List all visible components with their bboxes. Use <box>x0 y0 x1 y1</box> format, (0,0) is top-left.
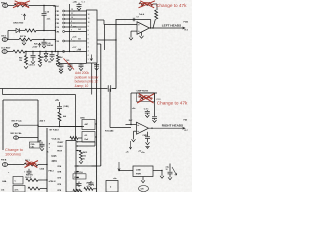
IC U1 body <box>87 10 98 63</box>
wire <box>95 123 97 125</box>
svg-text:C19: C19 <box>56 27 59 29</box>
wire bus <box>54 6 56 52</box>
svg-text:9: 9 <box>88 26 89 28</box>
wire <box>38 179 47 181</box>
red scribble over R26 <box>13 1 30 8</box>
capacitor C30 inline <box>107 85 109 92</box>
wire long vertical A <box>115 20 117 89</box>
svg-text:R40 470: R40 470 <box>26 173 33 176</box>
resistor R49 <box>70 137 78 140</box>
svg-text:10k: 10k <box>19 60 22 62</box>
box X3 <box>106 181 118 193</box>
svg-text:4: 4 <box>88 46 89 49</box>
wire <box>38 126 84 128</box>
svg-text:U4A: U4A <box>2 180 7 183</box>
capacitor C25b <box>94 63 99 65</box>
svg-text:C-9 1: C-9 1 <box>144 109 149 111</box>
wire <box>153 170 162 172</box>
svg-text:C4B: C4B <box>38 139 42 142</box>
svg-text:10: 10 <box>88 22 90 24</box>
svg-text:&amp; 10: &amp; 10 <box>75 84 89 88</box>
wire op-amp minus input <box>104 24 137 26</box>
svg-text:015: 015 <box>83 155 86 157</box>
wire <box>104 25 106 51</box>
svg-text:wfg: wfg <box>166 166 169 168</box>
wire <box>36 30 55 32</box>
wire vertical <box>130 93 132 125</box>
row 51 bubble <box>63 51 65 53</box>
resistor R48 <box>58 112 61 121</box>
svg-text:CR25 R30: CR25 R30 <box>13 23 24 25</box>
power arrow <box>39 43 41 47</box>
capacitor C7 on feedback <box>132 18 134 22</box>
wire bus <box>69 4 71 52</box>
svg-text:c: c <box>49 147 50 149</box>
wire <box>8 164 24 166</box>
diode CR26 <box>45 52 47 54</box>
svg-text:C43: C43 <box>48 60 51 63</box>
resistor R41 (crossed out) <box>24 163 38 166</box>
svg-text:7: 7 <box>71 29 72 31</box>
svg-text:C18: C18 <box>56 19 59 21</box>
wire top right stage <box>131 92 157 94</box>
box CHA CAL <box>30 142 41 148</box>
wire <box>103 20 105 25</box>
power arrow <box>24 14 26 20</box>
svg-text:CR3: CR3 <box>56 23 60 25</box>
resistor R437 <box>13 50 25 53</box>
left box <box>3 99 38 101</box>
wire <box>7 31 9 40</box>
svg-text:CRA: CRA <box>57 165 62 168</box>
resistor R43 <box>25 52 27 56</box>
svg-text:U4/5: U4/5 <box>52 155 58 158</box>
wire bus vertical <box>46 128 48 192</box>
capacitor C42 <box>32 52 34 55</box>
svg-text:+C26: +C26 <box>72 36 76 38</box>
svg-text:R47: R47 <box>129 119 132 122</box>
svg-text:MT P.ADJ: MT P.ADJ <box>50 129 59 132</box>
wire long vertical C <box>96 63 98 192</box>
svg-text:CRB: CRB <box>57 172 62 174</box>
resistor R26 (crossed out) <box>14 4 29 7</box>
svg-text:PB6 4: PB6 4 <box>1 1 7 4</box>
svg-text:R1C4A4: R1C4A4 <box>105 130 114 133</box>
svg-text:A47: A47 <box>85 123 88 126</box>
svg-text:5: 5 <box>88 43 89 45</box>
diode CR25 <box>16 28 19 32</box>
svg-text:+C25: +C25 <box>72 27 76 29</box>
capacitor C13 <box>152 116 157 118</box>
wire <box>153 3 157 5</box>
svg-text:C .1: C .1 <box>82 2 85 4</box>
ground <box>23 40 25 43</box>
circuit schematic scan, 192x192 <box>0 0 192 192</box>
wire <box>8 30 16 32</box>
resistor R415 <box>79 150 81 152</box>
svg-text:CR2: CR2 <box>56 15 60 17</box>
box CR22 <box>73 174 86 179</box>
wire <box>43 21 45 31</box>
svg-text:PB W: PB W <box>57 151 62 153</box>
svg-text:10: 10 <box>71 17 73 19</box>
IC U1 internal arrow <box>90 55 93 61</box>
svg-text:R27 2k: R27 2k <box>20 36 27 38</box>
wire pin12 vertical <box>91 63 93 95</box>
wire bus horizontal <box>0 88 108 90</box>
svg-text:2-6k: 2-6k <box>17 1 22 4</box>
trimmer box 2 <box>82 132 95 143</box>
capacitor C04 <box>43 6 45 13</box>
capacitor C4B <box>57 106 62 108</box>
wire <box>20 30 25 32</box>
svg-text:VCA adj: VCA adj <box>52 138 61 141</box>
wire minus input <box>126 124 137 126</box>
connector GND <box>139 186 149 192</box>
svg-text:PIN B: PIN B <box>1 160 7 162</box>
svg-text:CR41 C1A: CR41 C1A <box>74 171 83 174</box>
wire <box>153 19 155 28</box>
IC U4 body <box>66 141 76 193</box>
wire vertical <box>109 89 111 128</box>
svg-text:4.2: 4.2 <box>85 134 88 137</box>
svg-text:Change to 47k: Change to 47k <box>157 100 188 105</box>
output arrow <box>183 27 186 29</box>
svg-text:CPB: CPB <box>57 190 62 192</box>
wire <box>7 51 13 53</box>
capacitor C05 <box>43 40 45 42</box>
svg-text:J: J <box>93 185 94 187</box>
svg-text:B OH: B OH <box>54 6 60 8</box>
resistor R42 <box>28 187 40 190</box>
resistor R38 <box>84 187 93 190</box>
svg-text:12: 12 <box>71 9 73 11</box>
arrow <box>172 167 177 175</box>
red leader line <box>64 59 75 70</box>
svg-text:4.7k: 4.7k <box>87 185 91 188</box>
ground <box>146 142 150 144</box>
box X2 <box>13 186 25 193</box>
capacitor C22 <box>60 63 62 66</box>
svg-text:2k2: 2k2 <box>78 29 81 31</box>
svg-text:6: 6 <box>88 38 89 40</box>
svg-text:8: 8 <box>88 30 89 32</box>
wire <box>154 93 156 116</box>
connector CB4 <box>2 38 7 42</box>
svg-text:Ralf: Ralf <box>85 139 89 141</box>
svg-text:7: 7 <box>88 34 89 36</box>
capacitor C37 <box>90 181 92 182</box>
capacitor C23 <box>69 63 71 66</box>
red scribble over R60 <box>137 94 155 104</box>
svg-text:4k4: 4k4 <box>63 115 66 118</box>
wire <box>110 127 131 129</box>
supply arrow 2v <box>130 141 132 149</box>
wire <box>38 164 47 166</box>
resistor R46 <box>57 52 59 56</box>
svg-text:1N4148: 1N4148 <box>47 44 54 47</box>
wire <box>7 39 19 41</box>
output arrow right <box>183 127 186 129</box>
svg-text:C20: C20 <box>56 41 59 43</box>
wire <box>97 43 101 45</box>
svg-text:4k7: 4k7 <box>42 56 45 59</box>
wire bus horizontal 2 <box>3 94 76 96</box>
svg-text:(C4B): (C4B) <box>64 105 69 108</box>
box X1 <box>13 177 23 185</box>
ground <box>168 177 172 179</box>
svg-text:=PIN-3f: =PIN-3f <box>49 181 56 183</box>
svg-text:R415: R415 <box>83 151 87 154</box>
svg-text:CPB: CPB <box>57 184 62 186</box>
wire <box>97 39 116 41</box>
resistor R32 (crossed out) <box>139 3 153 6</box>
wire <box>56 63 87 65</box>
svg-text:MIC B CAL: MIC B CAL <box>11 132 23 135</box>
connector CC4 <box>2 50 7 54</box>
resistor R31 <box>155 10 158 19</box>
svg-text:+C447: +C447 <box>32 46 37 49</box>
wire <box>92 165 97 167</box>
svg-text:MIC P adj: MIC P adj <box>12 121 22 123</box>
svg-text:LEFT HEADS: LEFT HEADS <box>162 24 181 28</box>
wire <box>97 19 104 21</box>
svg-text:3: 3 <box>88 51 89 53</box>
wire <box>25 51 87 53</box>
box LINE PWR <box>133 166 153 177</box>
svg-text:Tc4-4: Tc4-4 <box>139 13 145 16</box>
ground <box>141 32 143 36</box>
ground <box>80 160 82 161</box>
wire plus input <box>134 130 137 132</box>
op-amp U2A <box>137 22 150 35</box>
red scribble over R41 <box>25 161 39 168</box>
svg-text:2: 2 <box>88 55 89 57</box>
red scribble over R32 <box>139 1 156 8</box>
resistor R39 <box>73 189 82 192</box>
capacitor C24 <box>80 63 82 66</box>
svg-text:CR1: CR1 <box>56 11 60 13</box>
svg-text:11: 11 <box>71 13 73 15</box>
svg-text:C4R5: C4R5 <box>80 117 85 120</box>
svg-text:PIN-3: PIN-3 <box>49 170 55 172</box>
ground <box>60 70 62 72</box>
svg-text:C42 2.2: C42 2.2 <box>29 63 35 66</box>
wire plus input <box>131 30 137 32</box>
wire <box>29 5 55 7</box>
resistor R40 <box>26 179 38 182</box>
svg-text:0k1: 0k1 <box>78 38 81 40</box>
wire <box>8 5 14 7</box>
svg-text:11: 11 <box>88 18 90 20</box>
capacitor C43 <box>51 52 53 54</box>
ground <box>160 176 164 178</box>
resistor R45 <box>39 52 41 56</box>
wire output right <box>149 127 185 129</box>
svg-text:R C: R C <box>185 130 189 132</box>
resistor R27 <box>19 38 32 41</box>
wire <box>2 89 4 95</box>
svg-text:C/WF ROHS: C/WF ROHS <box>137 90 149 92</box>
wire <box>32 39 55 41</box>
supply arrow <box>118 162 120 171</box>
wire long vertical B <box>100 44 102 166</box>
capacitor C36 <box>78 182 80 184</box>
svg-text:C7: C7 <box>137 17 139 19</box>
connector PB4 <box>3 4 8 8</box>
feedback wire <box>116 19 151 21</box>
wire output <box>150 27 185 29</box>
svg-text:PWR: PWR <box>136 174 141 176</box>
svg-text:C43A: C43A <box>40 167 45 170</box>
svg-text:Change to 47k: Change to 47k <box>156 3 187 8</box>
resistor R60 (crossed out) <box>137 93 155 102</box>
wire <box>119 170 133 172</box>
svg-text:C-13: C-13 <box>157 99 161 101</box>
svg-text:R28: R28 <box>34 43 37 45</box>
svg-text:YEAST: YEAST <box>57 141 64 144</box>
svg-text:CASH: CASH <box>57 145 63 148</box>
svg-text:CR22: CR22 <box>74 177 79 179</box>
resistor R30 <box>25 29 36 32</box>
svg-text:CC 4 R437: CC 4 R437 <box>1 46 10 49</box>
svg-text:CPA: CPA <box>57 177 61 180</box>
wire <box>60 126 83 128</box>
svg-text:12: 12 <box>88 14 90 16</box>
svg-text:10: 10 <box>166 169 168 171</box>
ground <box>141 180 145 182</box>
wire <box>79 141 95 143</box>
wire <box>75 95 77 141</box>
svg-text:+C28: +C28 <box>77 49 81 51</box>
svg-text:2k2: 2k2 <box>60 57 63 59</box>
svg-text:RIGHT HEADS: RIGHT HEADS <box>162 124 183 128</box>
wire <box>161 171 163 176</box>
svg-text:9: 9 <box>71 21 72 23</box>
op-amp U3A <box>137 122 149 134</box>
svg-text:1: 1 <box>88 59 89 61</box>
svg-text:100ohms: 100ohms <box>5 152 21 157</box>
wire <box>75 165 101 167</box>
svg-text:LINE: LINE <box>136 170 141 172</box>
wire <box>59 121 61 127</box>
svg-text:3379: 3379 <box>52 161 58 163</box>
svg-text:A24 V: A24 V <box>40 120 46 123</box>
wire <box>142 177 144 181</box>
svg-text:6: 6 <box>71 39 72 41</box>
IC U1 left pins <box>63 10 65 12</box>
